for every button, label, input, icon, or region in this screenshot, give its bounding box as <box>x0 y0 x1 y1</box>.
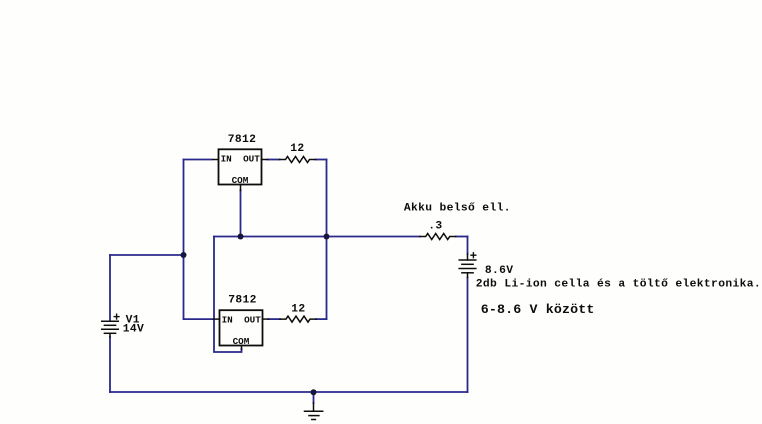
svg-text:OUT: OUT <box>244 315 261 326</box>
svg-text:IN: IN <box>222 315 233 326</box>
svg-text:6-8.6 V között: 6-8.6 V között <box>481 302 595 317</box>
svg-text:12: 12 <box>290 143 304 155</box>
svg-text:14V: 14V <box>123 324 144 336</box>
svg-text:OUT: OUT <box>243 154 260 165</box>
svg-text:2db Li-ion cella és a töltő el: 2db Li-ion cella és a töltő elektronika. <box>476 278 761 290</box>
svg-text:7812: 7812 <box>228 134 257 146</box>
svg-text:8.6V: 8.6V <box>485 265 514 277</box>
svg-text:IN: IN <box>221 154 232 165</box>
svg-text:COM: COM <box>233 336 250 347</box>
svg-text:7812: 7812 <box>228 294 257 306</box>
svg-text:.3: .3 <box>428 221 442 233</box>
svg-text:COM: COM <box>232 175 249 186</box>
svg-text:Akku belső ell.: Akku belső ell. <box>404 202 511 214</box>
svg-text:12: 12 <box>291 304 305 316</box>
